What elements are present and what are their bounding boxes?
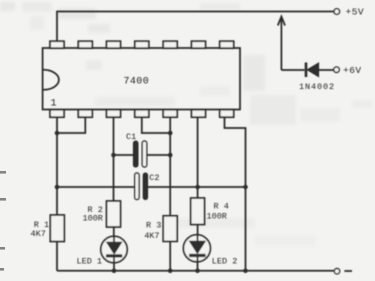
svg-text:R 4: R 4	[214, 201, 229, 211]
wire pin3 down to R2	[113, 117, 115, 201]
node rail LED2 junction	[195, 269, 200, 274]
diode D1 1N4002	[305, 63, 308, 78]
svg-text:4K7: 4K7	[144, 231, 159, 241]
pin 1	[50, 110, 64, 118]
pin 7	[220, 110, 234, 118]
pin 12	[107, 41, 121, 48]
pin 3	[107, 110, 121, 118]
svg-text:LED 2: LED 2	[212, 256, 238, 266]
pin 2	[78, 110, 92, 118]
LED LED2	[183, 235, 210, 262]
wire pin1 down	[56, 117, 58, 215]
wire diode branch	[281, 69, 304, 71]
svg-text:+5V: +5V	[346, 7, 365, 18]
svg-text:C1: C1	[126, 132, 136, 142]
wire pin7 jog to right vertical	[225, 117, 246, 271]
op-amp U1 7400 body	[43, 48, 240, 110]
node C1 right junction	[168, 153, 173, 158]
pin 8	[220, 41, 234, 48]
pin 5	[163, 110, 177, 118]
resistor R2	[107, 201, 121, 227]
wire +5V rail from pin 14	[57, 12, 334, 42]
node pin4-pin5 junction	[168, 131, 173, 136]
svg-text:1N4002: 1N4002	[299, 82, 335, 92]
wire pin2 jog to pin1 line	[57, 117, 85, 133]
node rail LED1 junction	[112, 269, 117, 274]
wire pin4 jog to pin5 line	[142, 117, 170, 133]
svg-text:100R: 100R	[83, 214, 103, 224]
svg-text:7400: 7400	[124, 76, 150, 87]
node C2 left junction	[55, 185, 60, 190]
capacitor C2	[57, 186, 135, 188]
resistor R4	[191, 198, 205, 225]
svg-text:100R: 100R	[207, 212, 227, 222]
pin 13	[78, 41, 92, 48]
svg-text:+6V: +6V	[343, 65, 362, 76]
node rail R3 junction	[168, 269, 173, 274]
node C2 right junction	[243, 185, 248, 190]
node +5V terminal	[334, 9, 340, 15]
pin 14	[50, 41, 64, 48]
pin 4	[135, 110, 149, 118]
wire pin5 down to R3	[169, 117, 171, 216]
node +6V terminal	[334, 67, 340, 73]
svg-text:LED 1: LED 1	[77, 257, 103, 267]
svg-text:C2: C2	[149, 173, 159, 183]
wire arrow to +5V rail	[280, 17, 282, 71]
pin 6	[192, 110, 206, 118]
pin 11	[135, 41, 149, 48]
svg-text:1: 1	[51, 99, 57, 110]
pin 10	[163, 41, 177, 48]
svg-text:4K7: 4K7	[31, 229, 46, 239]
pin 9	[192, 41, 206, 48]
resistor R3	[163, 216, 177, 242]
capacitor C1	[114, 154, 134, 156]
wire pin6 down to R4	[197, 117, 199, 198]
node C2 pin6 junction	[195, 185, 200, 190]
node C1 left junction	[111, 153, 116, 158]
node rail right junction	[243, 269, 248, 274]
svg-text:R 3: R 3	[146, 221, 161, 231]
resistor R1	[50, 215, 64, 242]
wire minus rail	[57, 270, 334, 272]
node minus terminal	[334, 269, 339, 274]
node pin2-pin1 junction	[55, 131, 60, 136]
LED LED1	[101, 236, 127, 262]
notch	[43, 70, 58, 90]
